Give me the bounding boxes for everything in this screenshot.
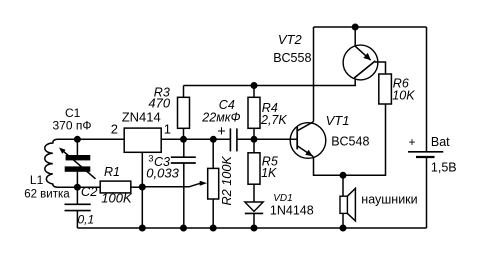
svg-text:1N4148: 1N4148 [270, 204, 314, 218]
wire top supply rail [314, 26, 427, 28]
junction speaker top [340, 172, 347, 179]
svg-text:R1: R1 [104, 165, 120, 179]
transistor VT1 base bar [296, 127, 298, 150]
junction R1 right / pin3 / wiper [139, 184, 146, 191]
svg-text:1,5В: 1,5В [431, 161, 457, 175]
battery Bat plates [408, 151, 443, 153]
junction ground bus at R2 [210, 225, 217, 232]
svg-text:BC548: BC548 [331, 135, 369, 149]
junction VT2 emitter at top rail [352, 24, 359, 31]
svg-text:L1: L1 [30, 173, 44, 187]
svg-text:470: 470 [148, 96, 170, 111]
transistor VT1 BC548 circle [290, 123, 326, 159]
IC ZN414 body [124, 128, 161, 152]
wire mid rail: ZN414 pin 1 to C4 left plate [161, 138, 230, 140]
svg-text:10K: 10K [392, 89, 415, 103]
svg-text:VT1: VT1 [326, 113, 350, 128]
transistor VT1 emitter diagonal with arrow [297, 146, 313, 157]
transistor VT2 emitter lead from top rail [354, 27, 356, 46]
resistor R5 body [248, 153, 260, 184]
inductor L1 62 витка [45, 139, 78, 187]
transistor VT1 collector diagonal [297, 122, 313, 131]
resistor R5 1K: leads [253, 139, 255, 153]
junction ground bus at pin3 [139, 225, 146, 232]
transistor VT2 BC558 circle [343, 45, 378, 80]
junction R2 top [210, 136, 217, 143]
capacitor C1 variable arrow [63, 151, 96, 179]
wire mid rail: C4 right plate to VT1 base [237, 138, 297, 140]
svg-text:22мкФ: 22мкФ [201, 110, 240, 124]
wire mid rail: C1 node to ZN414 pin 2 [77, 138, 124, 140]
resistor R4 2,7K: leads [253, 86, 255, 98]
resistor R6 10K body [379, 74, 392, 104]
potentiometer R2 wiper arrow [142, 183, 200, 187]
svg-text:370 пФ: 370 пФ [53, 118, 92, 132]
speaker body [340, 196, 347, 213]
transistor VT2 base bar [354, 61, 375, 78]
capacitor C3 plates [171, 156, 196, 158]
svg-text:2,7K: 2,7K [260, 113, 287, 127]
capacitor C4 22мкФ plates [229, 128, 231, 151]
svg-text:VT2: VT2 [278, 32, 303, 47]
junction ground bus at C3 [180, 225, 187, 232]
capacitor C2 plates [65, 203, 91, 205]
svg-text:ZN414: ZN414 [122, 110, 161, 125]
diode VD1 1N4148 body [245, 202, 263, 211]
junction C4 / R4 / R5 [251, 136, 258, 143]
svg-text:наушники: наушники [361, 193, 417, 207]
potentiometer R2 100K: leads [212, 139, 214, 168]
svg-text:0,1: 0,1 [78, 213, 95, 227]
svg-text:R2 100K: R2 100K [220, 156, 234, 206]
junction R4 top / VT2 base [251, 82, 258, 89]
capacitor C2 0,1: leads [76, 187, 78, 204]
junction ground bus at speaker [340, 225, 347, 232]
svg-text:100K: 100K [101, 190, 133, 205]
junction tuned circuit top node [74, 136, 81, 143]
transistor VT2 emitter diagonal with arrow [355, 46, 370, 60]
svg-text:1K: 1K [261, 166, 277, 180]
wire VT1 collector to top rail [313, 27, 315, 122]
junction pin1 / R3 / C3 [180, 136, 187, 143]
potentiometer R2 body [208, 168, 219, 199]
speaker horn [347, 188, 355, 221]
wire VT1 emitter line to R6 bottom [314, 104, 386, 175]
resistor R4 body [248, 97, 260, 128]
speaker наушники: top lead [342, 175, 344, 196]
resistor R1 100K: leads [77, 186, 100, 188]
junction ground bus at VD1 [251, 225, 258, 232]
wire ZN414 pin 3 vertical to ground bus [141, 152, 143, 228]
capacitor C3 0,033: leads [183, 139, 185, 157]
capacitor C1 plates [66, 155, 91, 160]
capacitor C1 370 пФ variable: leads [76, 139, 78, 155]
resistor R3 body [178, 97, 190, 128]
svg-text:62 витка: 62 витка [24, 189, 70, 201]
diode VD1 cathode lead [253, 213, 255, 228]
svg-text:1: 1 [164, 122, 171, 137]
junction tuned circuit bottom node [74, 184, 81, 191]
svg-text:Bat: Bat [431, 135, 450, 149]
svg-text:0,033: 0,033 [146, 166, 179, 181]
svg-text:+: + [217, 124, 225, 140]
speaker bottom lead [342, 213, 344, 228]
svg-text:2: 2 [111, 122, 118, 137]
resistor R3 470: leads [183, 86, 185, 98]
wire battery negative lead [426, 157, 428, 228]
svg-text:3: 3 [148, 154, 153, 165]
wire upper rail R3/R4/VT2 base [184, 79, 356, 86]
wire bottom ground bus [77, 227, 426, 229]
wire battery positive lead [426, 27, 428, 151]
transistor VT2 collector to R6 [375, 62, 386, 74]
svg-text:VD1: VD1 [273, 193, 292, 204]
resistor R1 body [100, 181, 131, 193]
svg-text:C2: C2 [81, 184, 98, 199]
svg-text:BC558: BC558 [273, 51, 311, 65]
svg-text:+: + [409, 135, 416, 149]
